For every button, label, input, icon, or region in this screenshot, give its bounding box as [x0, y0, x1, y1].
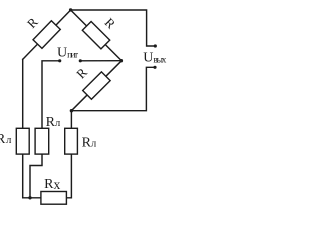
svg-text:Rх: Rх — [44, 177, 60, 192]
resistor Rl1 (left line) — [16, 128, 29, 154]
node: bottom junction dot (3-wire tie) — [28, 196, 31, 199]
svg-text:R: R — [24, 14, 41, 31]
svg-text:R: R — [102, 15, 119, 32]
resistor Rx (measured) — [41, 192, 67, 205]
node: Upit left terminal dot — [58, 59, 61, 62]
node: bottom vertex junction dot — [70, 109, 73, 112]
node: top vertex junction dot — [69, 8, 72, 11]
wire: top output run from top-vertex to upper Uvyh terminal — [71, 10, 156, 46]
svg-text:Uпит: Uпит — [57, 45, 79, 60]
wire: left line-wire down from left vertex — [22, 59, 24, 128]
node: Uvyh lower terminal dot — [153, 66, 156, 69]
resistor R (top-right arm) — [82, 21, 109, 48]
resistor Rl3 (right line) — [65, 128, 78, 154]
resistor R (middle arm) — [83, 72, 110, 99]
svg-text:Rл: Rл — [82, 135, 97, 150]
svg-text:R: R — [73, 65, 90, 82]
wire: bridge arm left-vertex to top-vertex — [23, 10, 71, 59]
resistor Rl2 (middle line) — [35, 128, 49, 154]
svg-text:Rл: Rл — [46, 115, 61, 130]
wire: third line-wire from bottom vertex down — [70, 111, 72, 129]
node: right vertex junction dot — [120, 59, 123, 62]
wire: bridge arm bottom-vertex to right-vertex — [71, 61, 121, 111]
wire: third line-wire below Rl3 to Rx right end — [66, 154, 71, 198]
node: Uvyh upper terminal dot — [154, 44, 157, 47]
wire: bridge arm top-vertex to right-vertex — [71, 10, 122, 61]
resistor R (top-left arm) — [33, 21, 60, 49]
svg-text:Rл: Rл — [0, 132, 11, 147]
wire: Upit line right segment to right-vertex — [80, 60, 121, 62]
node: Upit right terminal dot — [79, 59, 82, 62]
svg-text:Uвых: Uвых — [143, 50, 166, 65]
wire: Upit line left segment — [42, 61, 60, 129]
wire: lower Uvyh terminal to bottom-vertex — [71, 67, 155, 110]
wire: middle line-wire below Rl2 with step — [30, 154, 42, 198]
wire: left line-wire below Rl1 to bottom corner — [23, 154, 41, 198]
